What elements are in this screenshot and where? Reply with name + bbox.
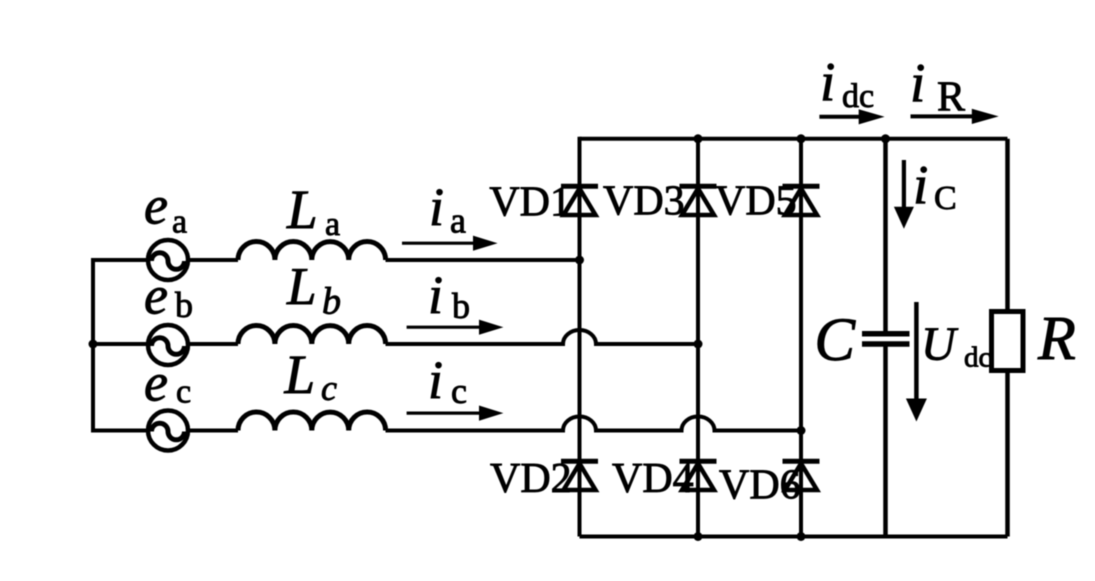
label L_c — [284, 344, 338, 408]
node junction top bus / capacitor branch — [881, 134, 890, 143]
svg-text:VD3: VD3 — [603, 179, 685, 225]
svg-text:c: c — [176, 374, 191, 411]
svg-text:a: a — [450, 201, 466, 241]
wire phase c: source to inductor — [188, 429, 238, 433]
svg-text:VD6: VD6 — [719, 463, 801, 509]
node junction phase a / leg1 — [575, 256, 584, 265]
svg-text:C: C — [934, 180, 957, 217]
svg-text:VD2: VD2 — [490, 456, 572, 502]
wire capacitor branch lower — [883, 347, 888, 537]
svg-text:i: i — [913, 154, 928, 215]
wire bridge leg1 — [578, 137, 582, 537]
node junction phase c / leg3 — [797, 426, 806, 435]
svg-text:L: L — [286, 179, 318, 240]
label VD3 — [603, 179, 685, 225]
wire phase b: inductor to leg2 with hop over leg1 — [386, 330, 699, 344]
svg-text:L: L — [284, 344, 316, 405]
svg-text:VD1: VD1 — [489, 180, 571, 226]
wire bridge leg2 — [696, 137, 700, 537]
wire phase a: source to inductor — [188, 258, 238, 262]
arrow i_c — [407, 406, 504, 421]
diode VD1 — [561, 186, 598, 215]
svg-text:a: a — [325, 206, 340, 243]
label i_b — [428, 265, 470, 326]
label L_b — [286, 258, 341, 323]
label e_c — [144, 353, 191, 413]
label VD4 — [612, 456, 694, 502]
label C — [814, 307, 856, 374]
wire phase a: bus to source — [91, 258, 148, 262]
label R — [1037, 305, 1076, 373]
inductor Lb — [238, 326, 386, 344]
svg-text:dc: dc — [842, 78, 874, 115]
node junction left bus / phase b — [89, 340, 98, 349]
label i_a — [429, 177, 466, 241]
arrow i_b — [407, 320, 504, 335]
svg-text:e: e — [144, 176, 168, 236]
wire phase b: bus to source — [91, 342, 148, 346]
diode VD6 — [783, 461, 820, 490]
arrow i_a — [402, 236, 498, 251]
svg-text:C: C — [814, 307, 856, 374]
svg-text:e: e — [144, 266, 168, 326]
wire phase c: inductor to leg3 with hops over leg1 and leg2 — [386, 417, 802, 431]
svg-text:i: i — [820, 51, 835, 112]
source e_b AC symbol — [148, 325, 188, 365]
node junction bottom bus / leg2 — [694, 532, 703, 541]
diode VD5 — [783, 186, 820, 215]
label VD5 — [715, 179, 797, 225]
arrow i_C — [894, 160, 914, 229]
resistor R body — [992, 312, 1024, 371]
wire resistor branch upper — [1005, 139, 1010, 312]
svg-text:VD5: VD5 — [715, 179, 797, 225]
label VD1 — [489, 180, 571, 226]
svg-text:i: i — [428, 265, 443, 325]
svg-text:c: c — [321, 368, 337, 408]
node junction bottom bus / leg3 — [797, 532, 806, 541]
wire phase c: bus to source — [91, 429, 148, 433]
diode VD2 — [561, 461, 598, 490]
svg-text:a: a — [172, 204, 187, 241]
label i_R — [910, 52, 965, 121]
svg-text:R: R — [1037, 305, 1076, 373]
source e_a AC symbol — [148, 240, 188, 280]
svg-text:U: U — [921, 318, 959, 371]
wire resistor branch lower — [1005, 371, 1010, 537]
wire bottom bus — [580, 535, 1008, 539]
diode VD3 — [680, 186, 717, 215]
label e_a — [144, 176, 187, 241]
label U_dc — [921, 318, 991, 374]
label VD6 — [719, 463, 801, 509]
svg-text:i: i — [429, 177, 444, 237]
label L_a — [286, 179, 340, 243]
svg-text:VD4: VD4 — [612, 456, 694, 502]
svg-text:L: L — [286, 258, 316, 316]
wire phase b: source to inductor — [188, 342, 238, 346]
wire capacitor branch upper — [883, 139, 888, 331]
source e_c AC symbol — [148, 411, 188, 451]
arrow U_dc — [906, 302, 927, 422]
wire top bus — [580, 137, 1008, 141]
wire bridge leg3 — [799, 137, 803, 537]
svg-text:b: b — [322, 281, 341, 323]
node junction top bus / leg3 — [797, 134, 806, 143]
node junction top bus / leg2 — [694, 134, 703, 143]
inductor Lc — [238, 412, 386, 430]
label i_dc — [820, 51, 874, 115]
diode VD4 — [680, 461, 717, 490]
node junction phase b / leg2 — [694, 340, 703, 349]
svg-text:b: b — [175, 285, 193, 325]
label e_b — [144, 266, 193, 326]
svg-text:c: c — [451, 371, 467, 411]
arrow i_R — [911, 109, 999, 124]
svg-text:b: b — [452, 286, 470, 326]
capacitor C plates — [862, 334, 910, 344]
label VD2 — [490, 456, 572, 502]
svg-text:i: i — [910, 52, 925, 113]
label i_c — [428, 350, 467, 411]
arrow i_dc — [819, 109, 884, 124]
wire phase a: inductor to bridge leg1 — [386, 258, 580, 262]
wire left bus vertical — [91, 260, 95, 431]
label i_C — [913, 154, 957, 217]
svg-text:dc: dc — [964, 342, 991, 374]
svg-text:R: R — [937, 75, 965, 121]
inductor La — [238, 242, 386, 260]
svg-text:e: e — [144, 353, 168, 413]
svg-text:i: i — [428, 350, 443, 410]
